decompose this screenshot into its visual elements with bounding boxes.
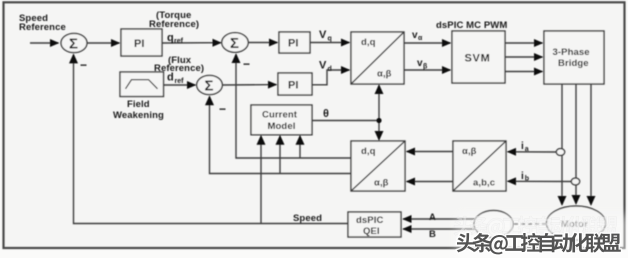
svg-text:b: b xyxy=(525,176,529,183)
block three-phase bridge xyxy=(544,31,604,84)
svg-text:V: V xyxy=(319,60,327,72)
wire theta down into dq2 xyxy=(378,121,380,140)
wire ia to abc block xyxy=(508,151,557,153)
svg-text:i: i xyxy=(521,171,524,182)
svg-text:B: B xyxy=(429,229,436,240)
svg-text:θ: θ xyxy=(323,108,329,120)
wire abc to dq2 upper xyxy=(407,151,454,153)
svg-text:QEI: QEI xyxy=(363,226,380,237)
block dsPIC QEI xyxy=(348,212,401,237)
svg-text:a,b,c: a,b,c xyxy=(473,178,495,189)
svg-text:α: α xyxy=(418,35,423,42)
svg-text:Σ: Σ xyxy=(205,77,214,94)
wire S1 to PI1 xyxy=(87,42,120,44)
svg-text:Reference: Reference xyxy=(19,22,66,33)
svg-text:α,β: α,β xyxy=(377,69,392,80)
wire encoder B to QEI xyxy=(403,228,475,230)
field weakening curve xyxy=(126,80,158,89)
watermark backdrop band xyxy=(457,215,628,258)
svg-text:Σ: Σ xyxy=(69,35,78,52)
summing junction S2 xyxy=(197,75,223,94)
wire bridge phase B down to motor xyxy=(575,84,577,204)
svg-text:3-Phase: 3-Phase xyxy=(553,47,590,58)
current sensor ib xyxy=(571,178,579,185)
block ABC clarke alpha,beta to a,b,c xyxy=(453,141,506,191)
svg-text:PI: PI xyxy=(134,38,144,50)
wire ib to abc block xyxy=(508,180,572,182)
svg-text:PI: PI xyxy=(288,38,298,50)
current sensor ia xyxy=(556,149,564,156)
svg-text:PI: PI xyxy=(288,80,298,92)
wire encoder A to QEI xyxy=(403,218,475,220)
svg-text:Reference): Reference) xyxy=(154,63,204,74)
svg-text:Field: Field xyxy=(127,99,150,110)
wire SVM to bridge phase2 xyxy=(505,56,543,58)
svg-text:Σ: Σ xyxy=(230,35,239,52)
svg-text:ref: ref xyxy=(175,78,185,85)
wire current model theta to junction xyxy=(312,120,379,122)
svg-text:Model: Model xyxy=(268,121,296,132)
wire speed-reference input arrow xyxy=(30,42,59,44)
block current model xyxy=(251,105,312,135)
svg-text:d: d xyxy=(167,72,174,84)
svg-text:−: − xyxy=(243,57,250,71)
svg-text:V: V xyxy=(319,29,327,41)
wire bridge phase C down to motor xyxy=(590,84,592,205)
wire feedback q: dq2 to S3 xyxy=(236,55,351,159)
summing junction S3 xyxy=(222,33,248,53)
svg-text:ref: ref xyxy=(174,38,184,45)
wire FW to S2 (d_ref) xyxy=(164,84,196,86)
wire speed feedback QEI to S1 xyxy=(74,55,349,224)
wire bridge phase A down to motor xyxy=(561,84,563,205)
wire S3 to PI3 xyxy=(248,42,277,44)
wire dq1 to SVM (v_alpha) xyxy=(404,42,451,44)
svg-text:dsPIC: dsPIC xyxy=(356,215,383,226)
svg-text:α,β: α,β xyxy=(374,178,389,189)
svg-text:Speed: Speed xyxy=(293,213,322,224)
node theta junction dot xyxy=(376,118,381,123)
svg-text:Weakening: Weakening xyxy=(113,110,164,121)
svg-text:d: d xyxy=(328,66,332,73)
svg-text:dsPIC MC PWM: dsPIC MC PWM xyxy=(436,20,507,31)
block PI3 torque current controller xyxy=(279,32,310,53)
watermark text 头条@工控自动化联盟 xyxy=(457,233,621,255)
svg-text:i: i xyxy=(521,141,524,152)
svg-text:d,q: d,q xyxy=(361,146,376,157)
svg-text:A: A xyxy=(429,212,436,223)
wire SVM to bridge phase1 xyxy=(505,42,543,44)
wire SVM to bridge phase3 xyxy=(505,71,543,73)
block PI1 speed controller xyxy=(121,29,162,56)
svg-text:a: a xyxy=(525,146,529,153)
svg-text:−: − xyxy=(80,58,87,72)
summing junction S1 xyxy=(61,33,87,52)
block SVM xyxy=(452,31,505,83)
svg-text:q: q xyxy=(167,32,174,44)
svg-text:SVM: SVM xyxy=(465,53,491,65)
watermark ghost xyxy=(454,216,618,238)
wire tap speed into current model xyxy=(260,136,262,223)
svg-text:Reference): Reference) xyxy=(149,19,199,30)
wire S2 to PI2 xyxy=(222,84,276,86)
watermark halo xyxy=(457,233,621,255)
block DQ2 park alpha,beta to d,q xyxy=(351,141,405,191)
svg-text:α,β: α,β xyxy=(462,146,477,157)
svg-text:Current: Current xyxy=(262,109,298,120)
wire tap d into current model xyxy=(279,136,281,173)
block PI2 flux current controller xyxy=(278,73,312,95)
svg-text:β: β xyxy=(423,64,428,71)
wire PI2 to dq1 (Vd) with step xyxy=(312,70,350,85)
wire dq1 to SVM (v_beta) xyxy=(404,69,451,71)
block FW field weakening xyxy=(120,72,164,97)
svg-text:Bridge: Bridge xyxy=(558,58,589,69)
motor circle xyxy=(547,206,606,240)
wire PI3 to dq1 (Vq) xyxy=(310,42,350,44)
encoder circle xyxy=(474,211,513,238)
svg-text:d,q: d,q xyxy=(361,37,376,48)
wire abc to dq2 lower xyxy=(407,181,454,183)
svg-text:−: − xyxy=(219,102,226,116)
wire theta up into dq1 xyxy=(378,86,380,121)
wire PI1 to S3 (q_ref) xyxy=(162,42,221,44)
wire feedback d: dq2 to S2 xyxy=(210,97,352,174)
wire shaft encoder to motor dashed xyxy=(514,223,547,225)
block DQ1 inverse park d,q to alpha,beta xyxy=(351,32,404,84)
wire tap q into current model xyxy=(299,136,301,158)
svg-text:q: q xyxy=(328,36,332,43)
